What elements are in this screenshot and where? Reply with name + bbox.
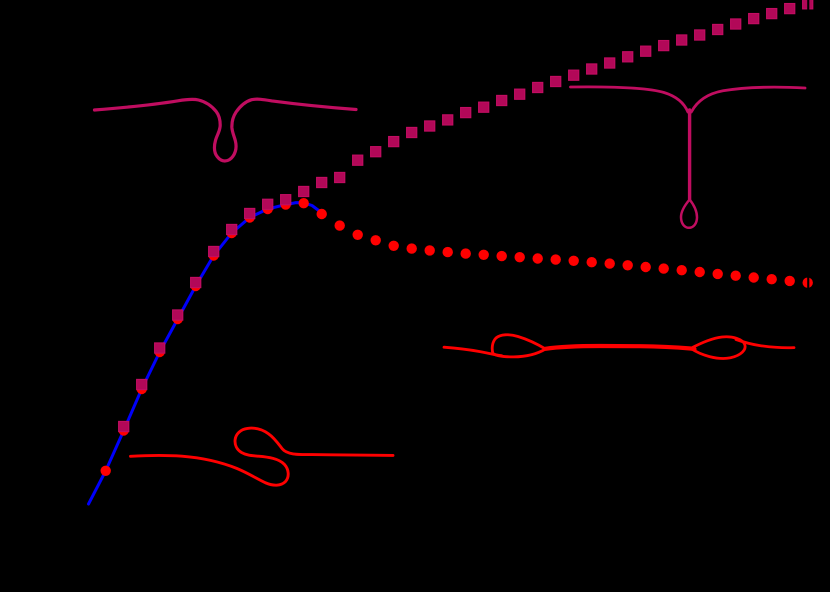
right axis spine (black, splits last markers) <box>807 0 809 592</box>
blue curve (stable branch) <box>89 203 321 504</box>
inset: bottom-right double-looped interface <box>444 335 794 359</box>
red circle marker series <box>101 198 813 476</box>
crimson square marker series <box>119 0 813 432</box>
inset: top-right pendant drop with long neck <box>571 87 806 228</box>
inset: bottom-left S-shaped overturning interface <box>131 428 394 485</box>
inset: top-left dimpled interface curve <box>95 99 357 161</box>
